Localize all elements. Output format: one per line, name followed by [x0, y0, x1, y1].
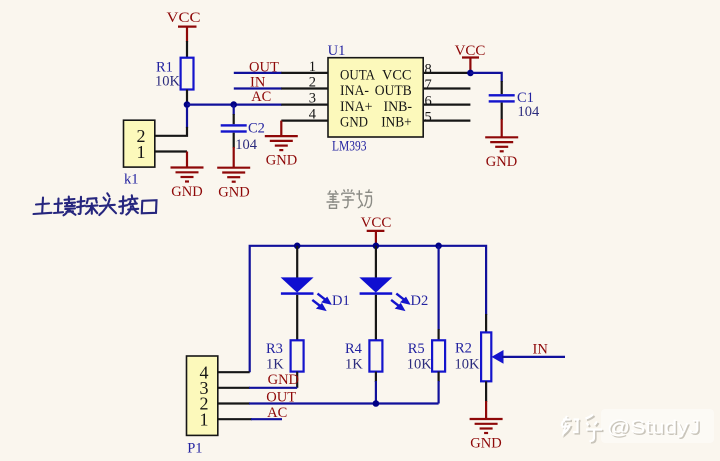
wire rail to R2 pin: [485, 314, 487, 332]
svg-text:104: 104: [518, 104, 541, 120]
wire top rail: [250, 246, 486, 372]
power symbol VCC (top left, above R1): [167, 10, 201, 42]
svg-text:8: 8: [425, 62, 432, 78]
svg-text:10K: 10K: [155, 74, 181, 90]
connector P1: [187, 356, 218, 456]
svg-text:7: 7: [425, 77, 432, 93]
pin 7 of U1: [423, 87, 470, 89]
svg-text:VCC: VCC: [382, 67, 412, 83]
svg-text:GND: GND: [340, 115, 368, 131]
watermark 善学坊 (hand-drawn strokes): [327, 189, 373, 208]
LED D2: [359, 277, 428, 310]
connector k1: [124, 120, 155, 187]
svg-text:10K: 10K: [407, 357, 433, 373]
ground GND (below R2): [470, 401, 503, 451]
schematic title 土壤探头接口 (hand-drawn strokes): [34, 193, 157, 215]
svg-text:LM393: LM393: [332, 139, 367, 155]
node F (rail / R5 branch): [435, 243, 442, 250]
svg-text:OUTA: OUTA: [340, 67, 375, 83]
svg-text:GND: GND: [268, 372, 299, 388]
watermark 知乎 @StudyJ: [601, 409, 714, 443]
pin 1 of U1: [281, 72, 328, 74]
svg-text:1: 1: [309, 59, 316, 75]
wire OUT net to U1 pin 1: [234, 72, 282, 74]
node D (rail / D1 branch): [294, 243, 301, 250]
svg-text:VCC: VCC: [361, 215, 392, 231]
svg-text:C2: C2: [248, 120, 265, 136]
svg-text:R4: R4: [345, 341, 363, 357]
resistor R1: [155, 58, 194, 90]
wire C1 bottom to ground: [501, 103, 503, 120]
wire R3 bottom to GND net: [296, 372, 298, 388]
svg-text:R2: R2: [455, 341, 472, 357]
wire R5 bottom to OUT net: [438, 372, 440, 382]
wire node F to R5: [438, 246, 440, 330]
node A (junction R1 / k1 / AC net): [184, 101, 191, 108]
svg-text:INA-: INA-: [340, 83, 369, 99]
node E (rail / VCC / D2 branch): [373, 243, 380, 250]
svg-text:IN: IN: [533, 342, 549, 358]
wire VCC to R1 top: [186, 41, 188, 58]
wire P1 pin 3 (GND net): [218, 387, 250, 389]
svg-text:U1: U1: [328, 43, 346, 59]
wire (black) corner to k1 pin 2: [155, 127, 187, 136]
svg-text:4: 4: [309, 107, 317, 123]
wire node B down to C2: [233, 105, 235, 115]
wire R4 bottom to OUT net: [375, 372, 377, 382]
wire node E to D2 anode: [375, 246, 377, 278]
svg-text:INB+: INB+: [381, 115, 412, 131]
svg-text:R5: R5: [408, 341, 425, 357]
svg-text:GND: GND: [470, 435, 501, 451]
wire AC net: node A to U1 pin 3: [187, 103, 282, 105]
svg-text:GND: GND: [218, 184, 249, 200]
svg-text:AC: AC: [267, 405, 287, 421]
capacitor C1: [489, 90, 540, 120]
pin 6 of U1: [423, 103, 470, 105]
wire C2 bottom to ground: [233, 133, 235, 148]
op-amp U1 LM393: [328, 43, 424, 155]
svg-text:1: 1: [137, 142, 146, 162]
power symbol VCC (above U1 pin 8): [455, 43, 486, 73]
ground GND (below C2): [217, 147, 250, 200]
node G (OUT net / R4): [373, 400, 380, 407]
svg-text:6: 6: [425, 93, 432, 109]
svg-text:AC: AC: [251, 89, 271, 105]
svg-text:P1: P1: [187, 440, 202, 456]
svg-text:OUT: OUT: [266, 389, 296, 405]
ground GND (U1 pin 4): [265, 121, 298, 169]
wire R2 bottom to ground: [485, 381, 487, 402]
svg-text:104: 104: [235, 137, 258, 153]
svg-text:VCC: VCC: [167, 10, 201, 26]
svg-text:D2: D2: [411, 293, 429, 309]
wire k1 pin 1 to ground: [155, 150, 187, 152]
svg-text:3: 3: [309, 91, 316, 107]
pin 4 of U1: [281, 119, 328, 121]
power symbol VCC (bottom rail): [361, 215, 392, 246]
svg-text:D1: D1: [332, 293, 350, 309]
node C (junction pin8 / VCC / C1): [467, 70, 474, 77]
ground GND (below C1): [485, 119, 518, 170]
ground GND (below k1 pin1): [171, 152, 204, 201]
node B (junction AC net / C2): [230, 101, 237, 108]
svg-text:5: 5: [425, 109, 432, 125]
svg-text:2: 2: [309, 75, 316, 91]
svg-text:1K: 1K: [266, 357, 284, 373]
LED D1: [281, 277, 350, 310]
wire D2 cathode to R4: [375, 295, 377, 341]
wire IN net to R2 wiper: [502, 356, 565, 358]
pin 3 of U1: [281, 103, 328, 105]
wire node A down to k1 pin 2 corner: [186, 107, 188, 128]
svg-text:INA+: INA+: [340, 99, 373, 115]
svg-text:GND: GND: [266, 153, 297, 169]
wire P1 pin 2 (OUT net): [218, 402, 250, 404]
svg-text:R3: R3: [266, 341, 283, 357]
pin 5 of U1: [423, 119, 470, 121]
svg-text:GND: GND: [171, 184, 202, 200]
wire P1 pin 1 (AC net stub): [218, 418, 252, 420]
pin 8 of U1: [423, 72, 470, 74]
svg-text:10K: 10K: [455, 357, 481, 373]
wire P1 pin 4 to rail: [218, 371, 250, 373]
svg-text:GND: GND: [486, 154, 517, 170]
svg-text:1K: 1K: [345, 357, 363, 373]
wire node D to D1 anode: [296, 246, 298, 278]
wire IN net to U1 pin 2: [234, 87, 282, 89]
svg-text:INB-: INB-: [384, 99, 413, 115]
pin 2 of U1: [281, 87, 328, 89]
resistor R4: [345, 340, 382, 372]
potentiometer R2: [455, 332, 504, 381]
svg-text:1: 1: [200, 409, 209, 429]
resistor R3: [266, 340, 304, 372]
svg-text:@StudyJ: @StudyJ: [607, 417, 700, 439]
wire node C to C1: [470, 73, 501, 82]
wire R1 bottom to node A: [186, 90, 188, 105]
wire D1 cathode to R3: [296, 295, 298, 341]
svg-text:k1: k1: [124, 172, 139, 188]
resistor R5: [407, 340, 445, 372]
svg-text:OUTB: OUTB: [375, 83, 412, 99]
capacitor C2: [221, 120, 265, 153]
